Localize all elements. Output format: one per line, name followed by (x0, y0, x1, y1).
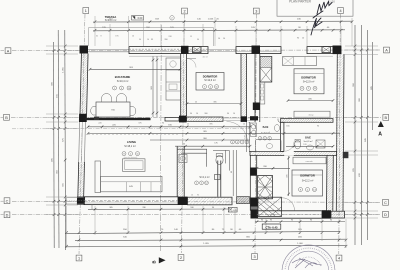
wc room east wall (217, 161, 219, 197)
svg-text:A: A (385, 49, 388, 53)
axis C right marker (383, 199, 389, 205)
dorm3 interior dim (257, 167, 290, 169)
title box (277, 0, 353, 16)
svg-text:S=12,2 m²: S=12,2 m² (302, 180, 314, 183)
svg-text:90: 90 (227, 113, 229, 115)
kitchen window top thin (88, 49, 129, 51)
svg-text:395: 395 (209, 123, 212, 125)
svg-text:DORMITOR: DORMITOR (203, 74, 218, 78)
column axis3/A (252, 46, 261, 54)
top extension lines (94, 16, 96, 46)
door arc dorm1 top (187, 59, 196, 68)
baie2 shower (316, 140, 325, 148)
porch hatch block right of axis3 (258, 197, 282, 216)
wc room top wall (177, 149, 207, 167)
svg-text:BAIE: BAIE (263, 126, 269, 129)
svg-text:PLAN PARTER: PLAN PARTER (289, 0, 312, 4)
axis 2 top marker (182, 8, 188, 14)
bottom band extension left of axis1 (67, 198, 85, 204)
bottom window band wc (188, 197, 233, 205)
svg-text:BAIE: BAIE (305, 137, 311, 140)
axis A left marker (5, 48, 11, 54)
svg-text:1.060: 1.060 (297, 243, 303, 245)
door gap baie bottom (284, 151, 294, 156)
svg-text:4m 13: 4m 13 (203, 57, 208, 59)
section marker B bottom triangle (159, 257, 166, 263)
axis D dash-dot line (12, 213, 381, 215)
svg-text:A: A (7, 49, 10, 53)
axis 3 bottom marker (252, 254, 258, 260)
svg-text:318: 318 (168, 36, 171, 38)
below-wall dim row1 right (255, 221, 345, 223)
section line B-B vertical dash-dot (160, 25, 161, 252)
svg-text:S=4,1 m²: S=4,1 m² (199, 176, 209, 179)
dorm1 interior dim line (187, 103, 241, 105)
axis B dash-dot line (11, 116, 381, 118)
door arc dorm3 (285, 142, 295, 152)
svg-text:25: 25 (187, 123, 189, 125)
axis C dash-dot line (12, 201, 381, 202)
wc dim line (175, 145, 250, 147)
svg-text:15: 15 (243, 123, 245, 125)
svg-text:S=4,9 m²: S=4,9 m² (304, 140, 313, 143)
baie2 toilet (295, 140, 301, 149)
baie1 fixtures left (251, 123, 257, 137)
wc washbasin (215, 175, 221, 180)
dorm3 west wall lines (249, 155, 251, 210)
column axis4/A (333, 46, 342, 55)
round stamp inner circle (288, 251, 329, 270)
dorm3 east wall (326, 155, 329, 211)
chimney shaft with X bottom (258, 176, 273, 199)
left dimension line 1 (53, 42, 56, 248)
svg-text:1:50: 1:50 (329, 0, 335, 4)
right dimension line 1 (354, 25, 356, 245)
kitchen chair top-right (117, 94, 127, 103)
right wall pilaster (343, 152, 349, 158)
living sofa seat (101, 176, 163, 192)
svg-text:360: 360 (204, 113, 207, 115)
baie1 washbasin (274, 125, 279, 132)
kitchen counter (166, 58, 181, 100)
living sofa back (95, 161, 101, 193)
column axis1/C (77, 197, 85, 205)
svg-text:B: B (385, 116, 388, 120)
top dimension line 2 (93, 30, 345, 31)
right extension lines (345, 45, 378, 47)
section marker A right triangle (378, 121, 384, 127)
svg-text:1.055: 1.055 (63, 66, 65, 72)
svg-text:8: 8 (100, 36, 101, 38)
chimney shaft with X top (260, 57, 272, 83)
wc room inner wall right (213, 150, 229, 170)
bottom extension lines (66, 206, 68, 248)
axis A dash-dot line (12, 49, 381, 52)
svg-text:10: 10 (233, 113, 235, 115)
kitchen-living thick line wall (85, 118, 151, 120)
door arc baie1 (249, 123, 257, 131)
stamp inner scribble (292, 258, 322, 268)
left extension lines (46, 45, 78, 47)
svg-text:375: 375 (138, 122, 141, 124)
axis A right marker (384, 47, 390, 53)
svg-text:B: B (152, 260, 157, 263)
wc sink left (179, 155, 187, 163)
bottom wall hatch block (237, 197, 250, 204)
svg-text:1.055: 1.055 (208, 19, 214, 21)
column axis2/C (178, 197, 188, 205)
dorm2 dresser (294, 111, 330, 117)
svg-text:10: 10 (132, 36, 134, 38)
round stamp outer circle (282, 245, 335, 270)
dorm2 wardrobe top (283, 57, 317, 66)
axis 2 dash-dot line (182, 14, 185, 253)
svg-text:165: 165 (286, 126, 289, 128)
dorm1 bed label box (196, 73, 224, 91)
svg-text:195: 195 (115, 36, 118, 38)
bottom dimension line 1 (66, 231, 340, 233)
top window band axis3 (236, 47, 281, 54)
kitchen chair left (91, 107, 96, 116)
left wall upper (77, 54, 89, 205)
axis 1 dash-dot line (79, 14, 85, 254)
baie1 bathtub (256, 139, 282, 151)
svg-text:S=12,6 m²: S=12,6 m² (204, 79, 216, 82)
column D right (322, 210, 331, 218)
kitchen table (96, 102, 130, 117)
hall dim line y140 (150, 139, 250, 141)
hall dim line y133 (88, 132, 340, 134)
svg-text:90: 90 (197, 39, 199, 41)
extra dash axis line y128.8 (12, 128, 250, 130)
axis 3 top marker (253, 8, 259, 14)
svg-text:2: 2 (183, 10, 185, 14)
bottom window band living (84, 197, 178, 205)
column axis3/D (251, 210, 259, 219)
svg-text:D: D (384, 213, 387, 217)
narrow duct below chimney (260, 82, 265, 104)
baie2 dim line (286, 145, 333, 147)
right dimension line 4 (372, 42, 374, 130)
signature scribble (311, 2, 332, 36)
wall axis3 right vertical (254, 54, 256, 123)
entrance door arc (282, 198, 295, 211)
kitchen vertical dim pair (152, 56, 154, 117)
left wall lower (77, 162, 80, 197)
svg-text:S=4,6 m²: S=4,6 m² (261, 131, 270, 134)
kitchen window sill line (129, 55, 181, 57)
svg-text:31: 31 (96, 36, 98, 38)
svg-text:2: 2 (180, 256, 182, 260)
bottom dimension line 3 (66, 245, 346, 246)
left dimension line 2 (57, 30, 60, 248)
column axis2/B (179, 116, 187, 123)
wall axis2 kitchen-dorm divider (180, 54, 182, 117)
elevation box small with x (228, 207, 237, 212)
column axis1/A (80, 46, 89, 54)
wc toilet (216, 155, 223, 164)
svg-text:DORMITOR: DORMITOR (300, 174, 315, 178)
terasa outline (89, 28, 214, 46)
svg-text:25: 25 (195, 101, 197, 103)
living interior dim dashes (88, 134, 178, 136)
svg-text:1: 1 (85, 9, 87, 13)
bottom wall right stub (331, 211, 345, 218)
axis D left marker (4, 212, 10, 218)
axis 3 dash-dot line (255, 14, 256, 253)
column axis3-left/B (241, 116, 247, 122)
vertical dim pair left of baie1 (246, 122, 248, 152)
svg-text:comoda: comoda (305, 161, 313, 163)
svg-text:1: 1 (78, 257, 80, 261)
top window band kitchen-dorm1 (129, 47, 208, 54)
baie2 washbasin (307, 145, 314, 150)
svg-text:C: C (6, 199, 9, 203)
svg-text:90: 90 (162, 122, 164, 124)
svg-text:15: 15 (190, 36, 192, 38)
wall axis3 left vertical (240, 54, 242, 123)
vertical dim in dorm3 (288, 156, 290, 196)
svg-text:95: 95 (197, 194, 199, 196)
kitchen threshold mark (94, 117, 99, 120)
wall axis2 lower (living-wc) (176, 146, 178, 197)
top window band right (307, 47, 341, 54)
baie1-baie2 divider wall (281, 122, 284, 151)
svg-text:120: 120 (303, 144, 306, 146)
black block below duct (253, 103, 260, 111)
roller box with X right (322, 47, 331, 53)
column axis3/C (251, 198, 259, 207)
svg-text:4: 4 (338, 257, 340, 261)
svg-text:10: 10 (196, 113, 198, 115)
label CTA -0.45 (262, 224, 281, 229)
elevation box +0.00 (132, 16, 144, 20)
axis 4 bottom marker (336, 255, 342, 261)
wall segment left of axis2/B (165, 117, 179, 121)
svg-text:B: B (5, 116, 8, 120)
dorm3 bed label box (292, 170, 323, 196)
svg-text:90: 90 (190, 113, 192, 115)
bottom window band dorm3 (257, 211, 322, 218)
svg-text:S=12,9 m²: S=12,9 m² (303, 81, 315, 84)
svg-text:90: 90 (139, 39, 141, 41)
dorm2 window sill line (307, 55, 333, 57)
hall dim line y127 (88, 126, 250, 128)
svg-text:90: 90 (231, 171, 233, 173)
hall door arc (227, 122, 248, 143)
svg-text:10: 10 (191, 194, 193, 196)
svg-text:385: 385 (213, 101, 216, 103)
svg-text:10: 10 (147, 39, 149, 41)
dorm2 bottom wall (281, 119, 334, 123)
svg-text:3: 3 (253, 255, 255, 259)
stamp rim text dots (285, 248, 332, 270)
axis D right marker (383, 211, 389, 217)
column axis2/A (181, 46, 189, 54)
svg-text:BUCATARIE: BUCATARIE (115, 75, 131, 79)
svg-text:3: 3 (255, 10, 257, 14)
svg-text:0.00: 0.00 (138, 17, 143, 20)
dorm3 west wall upper black (250, 168, 256, 176)
svg-text:A: A (378, 132, 382, 138)
svg-text:90: 90 (317, 126, 319, 128)
svg-text:D: D (6, 213, 9, 217)
svg-text:S=10,4 m²: S=10,4 m² (117, 80, 129, 83)
svg-text:(parchet laminat): (parchet laminat) (124, 156, 138, 159)
axis C left marker (4, 198, 10, 204)
hall door opening lines (223, 117, 250, 119)
axis B right marker (383, 115, 389, 121)
axis 1 bottom marker (76, 255, 82, 261)
living coffee table (123, 159, 146, 172)
axis 2 bottom marker (178, 255, 184, 261)
bottom dimension line 2 (75, 239, 346, 240)
svg-text:CTA -0.45: CTA -0.45 (265, 225, 278, 229)
axis 4 dash-dot line (339, 14, 341, 254)
black wall segment axis3/B (250, 116, 258, 120)
right dimension line 2 (360, 25, 362, 245)
column axis1/B (79, 114, 87, 122)
top thin door lines between axis2-3 (208, 49, 236, 51)
left dimension line 3 (64, 30, 67, 250)
axis B left marker (4, 114, 10, 120)
vertical dim pair at entrance (232, 150, 234, 196)
right dimension line 3 (366, 30, 368, 240)
svg-text:LIVING: LIVING (127, 140, 136, 144)
svg-text:220: 220 (98, 122, 101, 124)
kitchen interior dim line (90, 68, 180, 70)
door step hook living (92, 205, 98, 210)
svg-text:S=18,1 m²: S=18,1 m² (124, 145, 136, 148)
axis B hatched wall right of axis2 (187, 117, 223, 121)
joint between columns (251, 207, 259, 210)
baie bottom wall (250, 151, 337, 155)
circled 2 on terasa (170, 16, 174, 20)
left wall living window (78, 122, 81, 162)
dorm2 interior dim (288, 100, 333, 102)
svg-text:4: 4 (339, 9, 341, 13)
below-wall dim row left (88, 208, 232, 210)
svg-text:120: 120 (245, 135, 247, 138)
top dimension line 1 (93, 20, 352, 23)
kitchen chair right (130, 107, 136, 116)
svg-text:DORMITOR: DORMITOR (301, 75, 316, 79)
svg-text:1.055: 1.055 (203, 243, 209, 245)
right wall (336, 54, 337, 211)
kitchen chair top-left (102, 94, 112, 103)
svg-text:C: C (384, 201, 387, 205)
roller box with X top (193, 47, 202, 53)
dorm2 bed label box (294, 69, 324, 94)
dorm3 dresser (293, 157, 326, 164)
svg-text:S=43,1 m²: S=43,1 m² (105, 19, 117, 22)
axis 4 top marker (338, 8, 344, 14)
stamp small arc text (296, 257, 321, 267)
axis 1 top marker (83, 8, 89, 14)
hall circled numbers (231, 140, 235, 144)
